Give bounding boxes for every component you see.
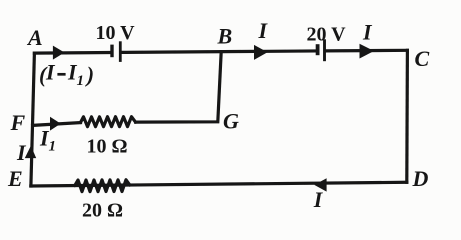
svg-text:E: E: [7, 166, 23, 191]
svg-text:F: F: [10, 110, 26, 135]
svg-text:10 V: 10 V: [96, 22, 136, 44]
svg-text:G: G: [223, 109, 239, 134]
svg-text:1: 1: [49, 139, 57, 155]
svg-text:C: C: [415, 46, 430, 71]
svg-text:B: B: [217, 23, 233, 48]
svg-text:D: D: [412, 166, 429, 191]
svg-text:I: I: [258, 18, 269, 43]
svg-text:I: I: [313, 187, 324, 212]
svg-text:): ): [85, 62, 94, 87]
svg-text:I: I: [362, 19, 373, 44]
svg-text:10 Ω: 10 Ω: [87, 136, 128, 158]
svg-text:I: I: [16, 140, 27, 165]
svg-text:I: I: [45, 59, 56, 84]
svg-text:1: 1: [77, 73, 85, 89]
svg-text:A: A: [26, 25, 43, 50]
svg-text:20 V: 20 V: [307, 23, 347, 45]
svg-text:20 Ω: 20 Ω: [82, 200, 123, 222]
